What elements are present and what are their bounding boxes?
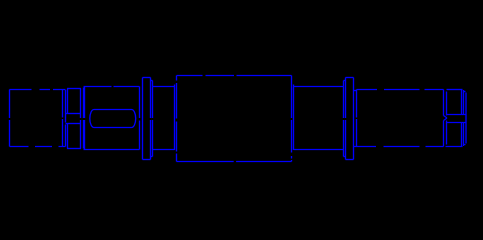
keyway section left edge xyxy=(84,87,86,150)
drilled hole cone upper line xyxy=(444,116,448,118)
section E bottom edge xyxy=(354,146,444,148)
section D left face xyxy=(293,85,295,151)
flange 2 top edge xyxy=(346,77,354,79)
section C bottom edge xyxy=(153,149,175,151)
drilled hole bottom line xyxy=(446,122,466,124)
flange 2 bottom step xyxy=(344,156,346,158)
section C right end face xyxy=(174,85,176,151)
section C top edge xyxy=(153,86,175,88)
flange 2 left face xyxy=(345,78,347,160)
shaft section A top edge xyxy=(10,89,66,91)
shaft section A bottom edge xyxy=(10,146,66,148)
keyway section right end face xyxy=(139,87,141,150)
section E right face lower xyxy=(443,121,445,147)
thread runout line lower xyxy=(461,123,463,147)
section D bottom edge xyxy=(294,149,344,151)
flange 2 bottom edge xyxy=(346,159,354,161)
shaft section A left end face xyxy=(9,90,11,147)
end face inner line xyxy=(463,90,465,115)
end face inner line lower xyxy=(463,123,465,147)
end cap top step xyxy=(464,91,466,93)
flange 1 bottom edge xyxy=(143,159,151,161)
hub block right edge xyxy=(291,76,293,162)
collar B left edge lower xyxy=(67,124,69,149)
shaft section A right end face xyxy=(65,90,67,147)
keyway section top edge xyxy=(84,86,140,88)
threaded end G top edge xyxy=(447,89,463,91)
section D top edge xyxy=(294,86,345,88)
flange 2 collar face xyxy=(343,81,345,157)
threaded end G bottom edge xyxy=(446,146,463,148)
collar B top edge xyxy=(67,88,81,90)
collar B bottom edge xyxy=(67,148,81,150)
hub block bottom edge xyxy=(177,161,292,163)
keyway section chamfer line xyxy=(83,88,85,149)
shaft section A inner step line xyxy=(62,90,64,147)
hub block top edge xyxy=(177,75,292,77)
flange 1 right face xyxy=(150,78,152,160)
end cap face xyxy=(465,93,467,144)
flange 2 top step xyxy=(344,80,346,82)
end cap bottom step xyxy=(464,144,466,146)
flange 1 top edge xyxy=(143,77,151,79)
drilled hole cone lower line xyxy=(444,118,448,120)
axial hole left: bottom line xyxy=(66,123,81,125)
end chamfer line upper xyxy=(446,92,448,116)
thread runout line xyxy=(461,90,463,115)
keyway section bottom edge xyxy=(84,149,140,151)
flange 1 left face xyxy=(142,78,144,160)
flange 1 collar face xyxy=(152,81,154,157)
axial hole left: top line xyxy=(66,113,81,115)
flange 1 bottom step xyxy=(151,156,153,158)
drilled hole top line xyxy=(447,114,466,116)
collar B left edge upper xyxy=(67,89,69,114)
section E step at flange xyxy=(354,90,357,92)
end chamfer line lower xyxy=(446,121,448,145)
section E chamfer line xyxy=(356,90,358,147)
flange 2 right face xyxy=(353,78,355,160)
keyway slot (rounded) xyxy=(90,110,136,128)
collar B right edge xyxy=(80,89,82,149)
section E top edge xyxy=(357,89,444,91)
flange 1 top step xyxy=(151,80,153,82)
section E right face upper xyxy=(443,90,445,116)
hub block left edge xyxy=(176,76,178,162)
